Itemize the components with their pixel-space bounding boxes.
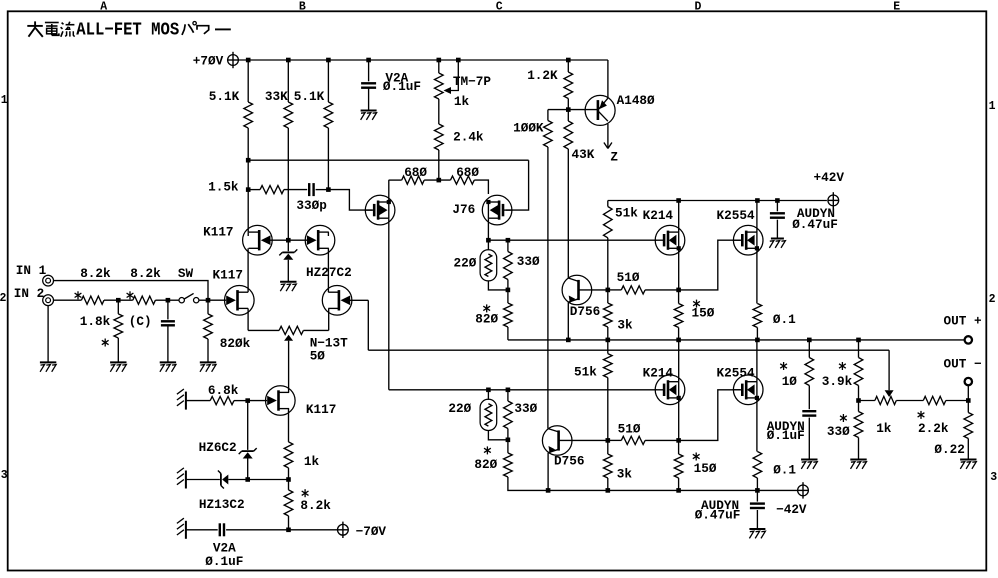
svg-text:Ø.47uF: Ø.47uF (695, 507, 741, 522)
svg-text:D756: D756 (554, 454, 584, 469)
title kanji DEN (electric) (45, 23, 59, 36)
resistor 3k lower (607, 440, 609, 454)
svg-text:−42V: −42V (776, 502, 807, 517)
junction OUT- node (966, 398, 971, 403)
svg-text:K117: K117 (306, 402, 336, 417)
wire cascode right drain up (327, 232, 329, 236)
wire lower gate row (389, 389, 657, 391)
resistor 0.22 (967, 401, 969, 413)
svg-text:82Øk: 82Øk (220, 336, 251, 351)
svg-text:SW: SW (178, 266, 194, 281)
resistor 330 output (858, 401, 860, 412)
transistor A1480 (585, 95, 615, 125)
title kanji RYUU (flow) (61, 22, 75, 37)
svg-text:1k: 1k (876, 421, 892, 436)
svg-text:K2554: K2554 (717, 365, 755, 380)
wire AUDYN lower to ground (756, 510, 758, 529)
junction 220 lower top (486, 388, 491, 393)
wire AUDYN cap to ground (776, 220, 778, 239)
svg-text:Z: Z (610, 149, 618, 164)
junction cascode gate node (286, 238, 291, 243)
capacitor 330p (308, 183, 310, 196)
resistor 8.2k bottom (288, 480, 290, 490)
svg-text:33Ø: 33Ø (517, 254, 540, 269)
junction 680 node (437, 178, 442, 183)
wire 0.1 to rail (756, 328, 758, 340)
junction K117c gate node (245, 398, 250, 403)
wire 510 lower left stub (608, 439, 622, 441)
svg-text:1Ø: 1Ø (782, 374, 798, 389)
resistor 1.2K (567, 60, 569, 72)
junction node 1.5k (246, 187, 251, 192)
wire 820 to output rail (507, 327, 509, 340)
wire 150 to rail (678, 328, 680, 340)
svg-text:Ø.1uF: Ø.1uF (383, 79, 421, 94)
svg-text:5.1K: 5.1K (294, 89, 325, 104)
ground AUDYN upper (771, 238, 784, 240)
wire 51k lower to gate row (607, 378, 609, 390)
terminal OUT+ (965, 336, 972, 343)
svg-text:K214: K214 (643, 365, 674, 380)
svg-text:22Ø: 22Ø (454, 255, 477, 270)
wire HZ6C2 to HZ13C2 row (247, 459, 249, 480)
wire 330p node to J76a gate (328, 190, 372, 211)
junction 820 node upper (506, 288, 511, 293)
wire V2A cap to ground (368, 88, 370, 111)
svg-text:(C): (C) (129, 314, 152, 329)
resistor 820k (207, 300, 209, 314)
resistor 43K (567, 110, 569, 121)
junction rail-5.1K-2 (326, 58, 331, 63)
svg-text:Ø.22: Ø.22 (934, 442, 964, 457)
wire V2A cap to -70V node (226, 529, 288, 531)
wiper arrow output pot (885, 390, 894, 397)
wire 820 lower to rail (508, 477, 548, 490)
svg-text:68Ø: 68Ø (404, 165, 427, 180)
svg-text:1: 1 (989, 100, 996, 113)
ground 0.22 (960, 459, 976, 461)
power terminal -42V (798, 485, 809, 496)
power terminal +42V (828, 195, 839, 206)
svg-text:B: B (299, 1, 306, 14)
wire 1.5k to 330p (284, 189, 307, 191)
junction 220 top (486, 238, 491, 243)
mosfet J76 left (365, 195, 395, 225)
svg-text:3: 3 (1, 469, 8, 482)
wire K2554 lower drain (756, 340, 758, 382)
wire 2.2k to OUT- node (946, 400, 969, 402)
wire N-13T left (248, 329, 279, 331)
ground HZ27C2 (280, 281, 296, 283)
svg-text:2.2k: 2.2k (918, 421, 949, 436)
svg-text:HZ13C2: HZ13C2 (199, 497, 245, 512)
ground 330 output (850, 459, 866, 461)
junction -70V node (286, 528, 291, 533)
wire K2554 source (756, 248, 758, 303)
svg-text:D756: D756 (570, 304, 600, 319)
wire 150 lower to rail (678, 478, 680, 490)
svg-text:1: 1 (1, 94, 8, 107)
junction nrail-0.1 (755, 488, 760, 493)
wire N-13T right (303, 329, 328, 331)
wire K117 right drain up (327, 248, 329, 292)
jfet K117 cascode left (243, 225, 273, 255)
capacitor V2A 0.1uF bottom (219, 523, 221, 536)
svg-text:68Ø: 68Ø (456, 165, 479, 180)
wire long node row 160 (248, 159, 528, 161)
wire K214 drain (678, 201, 680, 233)
junction 820 node lower (506, 438, 511, 443)
wire gate node down to HZ6C2 (247, 401, 249, 450)
zener HZ27C2 (287, 240, 289, 251)
junction rail-3.9k (856, 338, 861, 343)
junction rail-1.2K (566, 58, 571, 63)
wire 680 chain left (389, 179, 402, 181)
capacitor (C) (167, 300, 169, 319)
wiper arrow TM-7P (444, 87, 452, 94)
wire J76b source row to K214 gate (488, 239, 656, 241)
ground 1.8k (110, 361, 126, 363)
trimmer 1k output (875, 396, 896, 404)
resistor 1k (284, 442, 293, 468)
svg-text:1.5k: 1.5k (208, 180, 239, 195)
svg-text:3k: 3k (617, 466, 633, 481)
junction K214 source node (676, 288, 681, 293)
wire gate node to K117a (208, 299, 226, 301)
resistor 5.1K left (247, 60, 249, 102)
wire output rail to OUT+ (508, 339, 965, 341)
resistor 3k upper (607, 290, 609, 303)
ground V2A top (361, 110, 377, 112)
svg-text:Ø.1uF: Ø.1uF (205, 554, 243, 569)
wire 6.8k to gate (234, 400, 248, 402)
ground AUDYN 0.1uF (801, 459, 817, 461)
svg-text:K2554: K2554 (717, 208, 755, 223)
svg-text:+7ØV: +7ØV (193, 54, 224, 69)
svg-text:E: E (893, 1, 900, 14)
jfet K117 cascode right (305, 225, 335, 255)
wire K117b gate feedback entry (347, 299, 368, 301)
resistor 820 lower (507, 440, 509, 453)
connector IN 1 (43, 275, 54, 286)
title kanji DAI (large) (27, 21, 43, 37)
wire HZ13C2 to node (228, 479, 247, 481)
wiper arrow N-13T (284, 335, 293, 341)
resistor 150 lower (678, 440, 680, 454)
junction rail-V2A (366, 58, 371, 63)
svg-text:33Ø: 33Ø (514, 401, 537, 416)
trimmer N-13T 50 (279, 326, 303, 334)
wire D756 emitter to rail (567, 302, 569, 340)
wire feedback riser (367, 300, 369, 350)
trimmer TM-7P 1k (438, 60, 440, 73)
junction nrail-150 (676, 488, 681, 493)
svg-text:51Ø: 51Ø (618, 422, 641, 437)
junction 1.8k node (116, 298, 121, 303)
resistor 0.1 lower (753, 452, 762, 479)
wire D756 lower base (559, 439, 608, 441)
svg-text:OUT +: OUT + (944, 314, 982, 329)
junction K214 lower source node (676, 438, 681, 443)
transistor D756 upper (562, 275, 592, 305)
junction pot node (856, 398, 861, 403)
svg-text:Ø.1uF: Ø.1uF (767, 428, 805, 443)
junction 330 lower top (506, 388, 511, 393)
svg-text:1ØØK: 1ØØK (513, 121, 544, 136)
wire 330 output ground (858, 438, 860, 460)
svg-text:A148Ø: A148Ø (617, 93, 655, 108)
wire feedback long row (368, 349, 889, 351)
wire D756 lower emitter to rail (547, 453, 549, 491)
wire 330 lower to node (507, 429, 509, 440)
resistor 150 upper (678, 290, 680, 304)
wire 680 mid (424, 179, 450, 181)
junction nrail-3k (606, 488, 611, 493)
resistor 8.2k first (81, 296, 104, 304)
junction gate node 820k (206, 298, 211, 303)
svg-text:5.1K: 5.1K (209, 89, 240, 104)
wire 1k to node (288, 468, 290, 480)
svg-text:33Ø: 33Ø (827, 424, 850, 439)
wire 10 to cap (808, 386, 810, 410)
transistor D756 lower (542, 426, 572, 456)
wire sideground to HZ13C2 (186, 479, 220, 481)
resistor 51k upper (607, 201, 609, 207)
svg-text:K214: K214 (643, 208, 674, 223)
resistor 220 oval upper (487, 240, 489, 250)
junction nrail-D756 (546, 488, 551, 493)
svg-text:15Ø: 15Ø (692, 306, 715, 321)
svg-text:3k: 3k (617, 318, 633, 333)
zener HZ13C2 (220, 474, 222, 486)
ground C (160, 361, 176, 363)
wire node to 1k bottom (248, 479, 289, 481)
wire 3k to rail (607, 327, 609, 340)
wire K214 lower drain (678, 340, 680, 382)
svg-text:OUT −: OUT − (944, 356, 982, 371)
svg-text:Ø.1: Ø.1 (773, 312, 796, 327)
arrow Z off-page (604, 143, 608, 149)
junction 1k-8.2k node (286, 477, 291, 482)
wire 1.8k to ground (117, 338, 119, 362)
resistor 220 oval lower (487, 390, 489, 400)
capacitor AUDYN 0.47uF lower (756, 490, 758, 501)
wire 510 lower to source node (645, 439, 679, 441)
svg-text:8.2k: 8.2k (80, 266, 111, 281)
svg-text:33K: 33K (265, 89, 288, 104)
wire +70V rail (239, 59, 608, 61)
ground IN2 (40, 361, 56, 363)
junction 510 node upper (606, 288, 611, 293)
wire IN2 ground drop (47, 306, 49, 363)
power terminal +70V (228, 55, 239, 66)
svg-text:−7ØV: −7ØV (356, 524, 387, 539)
wire 820k ground (207, 339, 209, 362)
wire C to ground (167, 325, 169, 362)
resistor 1.8k (117, 300, 119, 314)
svg-text:IN 2: IN 2 (14, 286, 44, 301)
svg-text:K117: K117 (213, 268, 243, 283)
jfet K117 input right (322, 286, 352, 316)
title katakana PA (182, 22, 196, 35)
junction rail-AUDYN cap (775, 198, 780, 203)
wire feedback drop to pot (888, 350, 890, 390)
junction rail-5.1K (246, 58, 251, 63)
terminal OUT- (965, 378, 972, 385)
junction 330 top (506, 238, 511, 243)
resistor 510 lower (621, 436, 645, 444)
mosfet J76 right (482, 195, 512, 225)
wire +42V rail (608, 200, 827, 202)
wire K117b source down (328, 308, 330, 330)
wire 220 bottom (488, 281, 508, 290)
junction base node A1480 (566, 107, 571, 112)
wire K214 lower source (678, 398, 680, 441)
wire K117a source down (247, 308, 249, 330)
jfet K117 input left (225, 286, 255, 316)
resistor 2.2k output (923, 396, 946, 404)
resistor 8.2k second (133, 296, 156, 304)
svg-text:HZ6C2: HZ6C2 (199, 440, 237, 455)
wire 1.2K to base node (567, 99, 569, 110)
mosfet K2554 lower (733, 375, 763, 405)
junction rail-D756 emitter (566, 338, 571, 343)
resistor 10 and cap 0.1uF (808, 340, 810, 358)
ground AUDYN lower (749, 528, 765, 530)
resistor 6.8k (210, 397, 234, 405)
svg-text:D: D (695, 1, 702, 14)
wire 33K to gate node (287, 128, 289, 240)
resistor 820 upper (507, 290, 509, 303)
resistor 3.9k (858, 340, 860, 358)
junction C node (166, 298, 171, 303)
svg-text:J76: J76 (452, 202, 475, 217)
junction rail-33K (286, 58, 291, 63)
wire sideground to 6.8k (186, 400, 210, 402)
resistor 51k lower (607, 340, 609, 354)
wire to C node (155, 299, 168, 301)
svg-text:ALL−FET MOS: ALL−FET MOS (76, 20, 179, 40)
junction 510 node lower (606, 438, 611, 443)
wire 330p to node (316, 189, 329, 191)
svg-text:43K: 43K (572, 147, 595, 162)
svg-text:+42V: +42V (814, 170, 845, 185)
sideground 6.8k (185, 392, 187, 410)
svg-text:22Ø: 22Ø (448, 401, 471, 416)
wire 220 lower bottom (488, 431, 508, 440)
svg-text:5Ø: 5Ø (310, 349, 326, 364)
svg-text:51k: 51k (574, 364, 597, 379)
junction 330p node (326, 187, 331, 192)
wire cap to ground (808, 418, 810, 460)
resistor 330 upper (507, 240, 509, 251)
wire OUT- terminal drop (967, 385, 969, 400)
wire 1k to 2.2k (896, 400, 923, 402)
wire 0.1 lower to rail (756, 478, 758, 490)
wire gate node to K117c (248, 400, 268, 402)
mosfet K2554 upper (733, 225, 763, 255)
wire K117 left drain up (247, 248, 249, 292)
svg-text:2: 2 (989, 293, 996, 306)
wire J76a source up to 680 (388, 180, 390, 202)
resistor 100K (547, 110, 549, 121)
svg-text:51Ø: 51Ø (617, 270, 640, 285)
wire IN1 to switch node (54, 281, 209, 301)
wire J76b source down (487, 218, 489, 240)
wire 100K long column to lower D756 collector (547, 147, 549, 429)
wire J76b gate riser (506, 160, 529, 210)
junction rail-wiper (456, 58, 461, 63)
junction HZ6C2-HZ13C2 (245, 477, 250, 482)
mosfet K214 upper (655, 225, 685, 255)
svg-text:51k: 51k (615, 205, 638, 220)
junction rail-0.1 (755, 338, 760, 343)
svg-text:K117: K117 (203, 225, 233, 240)
wire 3.9k to pot node (858, 386, 860, 401)
svg-text:8.2k: 8.2k (130, 266, 161, 281)
wire K2554 drain (756, 201, 758, 233)
wire -70V node to terminal (289, 529, 338, 531)
wire base node to 100K (548, 109, 568, 111)
svg-text:C: C (496, 1, 503, 14)
wire TM-7P wiper (451, 60, 459, 91)
sideground V2A bottom (185, 521, 187, 539)
junction rail-K2554 drain (755, 198, 760, 203)
wire source node to K2554 lower gate riser (679, 390, 741, 441)
wire A1480 collector to Z (607, 124, 609, 148)
wire IN2 to 8.2k (54, 299, 82, 301)
wire 3k lower to rail (607, 478, 609, 490)
svg-text:82Ø: 82Ø (474, 457, 497, 472)
wire 510 left stub (608, 289, 622, 291)
wire 0.22 to ground (967, 439, 969, 460)
svg-text:IN 1: IN 1 (16, 263, 47, 278)
capacitor AUDYN 0.1uF (802, 410, 816, 412)
title katakana WA (197, 26, 209, 34)
junction rail-K214 drain (676, 198, 681, 203)
wire 5.1K-2 to 330p node (327, 128, 329, 190)
ground 820k (200, 361, 216, 363)
wire 330 to node (507, 280, 509, 290)
wire K117c source down (288, 409, 290, 442)
wire K214 source (678, 248, 680, 290)
junction rail-TM7P (437, 58, 442, 63)
resistor 0.1 upper (753, 304, 762, 328)
junction rail-10ohm (807, 338, 812, 343)
resistor 680 right (451, 176, 475, 184)
capacitor AUDYN 0.47uF upper (776, 201, 778, 212)
svg-text:HZ27C2: HZ27C2 (306, 265, 352, 280)
junction node row1 (246, 158, 251, 163)
svg-text:15Ø: 15Ø (694, 461, 717, 476)
wire 51k lower row to base node (607, 390, 609, 441)
resistor 33K (287, 60, 289, 102)
svg-text:8.2k: 8.2k (300, 498, 331, 513)
switch SW (168, 299, 179, 301)
svg-text:A: A (100, 1, 107, 14)
title katakana long vowel bar (215, 28, 231, 30)
wire 5.1K to node rows (247, 128, 249, 232)
svg-text:Ø.1: Ø.1 (773, 463, 796, 478)
wire wiper to K117c (288, 341, 290, 393)
wire 510 to K214 source (645, 289, 679, 291)
resistor 5.1K right (327, 60, 329, 102)
svg-text:3.9k: 3.9k (822, 374, 853, 389)
wire pot node to 1k (859, 400, 875, 402)
power terminal -70V (338, 524, 349, 535)
svg-text:1k: 1k (454, 94, 470, 109)
svg-text:2: 2 (0, 292, 7, 305)
